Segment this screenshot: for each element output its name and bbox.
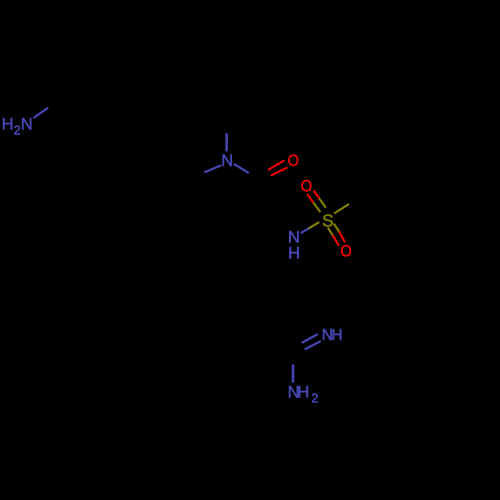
svg-text:O: O [340, 243, 352, 261]
svg-text:2: 2 [311, 391, 318, 406]
svg-text:N: N [21, 116, 33, 134]
svg-text:H: H [288, 244, 300, 262]
svg-text:N: N [221, 152, 233, 170]
svg-text:H: H [331, 327, 342, 344]
svg-text:O: O [301, 177, 313, 195]
svg-text:H: H [297, 384, 309, 402]
svg-text:H: H [2, 116, 14, 134]
svg-text:O: O [288, 152, 300, 170]
svg-text:S: S [322, 211, 334, 231]
svg-text:2: 2 [14, 123, 21, 138]
